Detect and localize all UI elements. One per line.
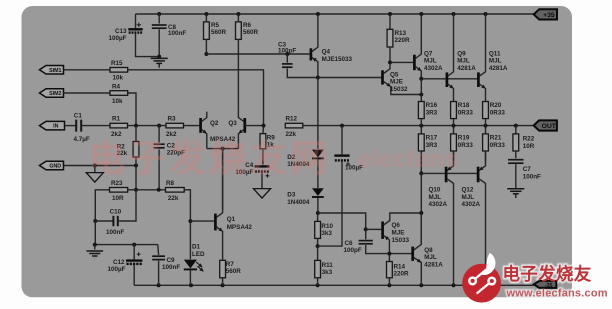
svg-text:www.elecfans.com: www.elecfans.com — [506, 287, 608, 299]
resistor R23 — [95, 180, 136, 221]
wire R23 node down to ground rail — [94, 221, 96, 245]
svg-text:4281A: 4281A — [457, 65, 476, 72]
svg-text:C13: C13 — [115, 28, 127, 35]
svg-text:Q5: Q5 — [390, 71, 399, 78]
svg-text:MJL: MJL — [457, 58, 470, 65]
transistor Q2 — [201, 112, 236, 149]
resistor R8 — [136, 180, 190, 221]
wire SIM1 to Q3 base node — [128, 70, 264, 126]
svg-text:C12: C12 — [113, 259, 125, 266]
svg-text:MJL: MJL — [429, 194, 442, 201]
transistor Q8 — [413, 213, 444, 285]
svg-text:22k: 22k — [168, 195, 179, 202]
svg-text:Q6: Q6 — [392, 222, 401, 229]
svg-text:0R33: 0R33 — [458, 142, 474, 149]
svg-text:3R3: 3R3 — [426, 109, 438, 116]
svg-text:电子发烧友: 电子发烧友 — [503, 264, 592, 284]
wire R3 to Q2 base — [184, 125, 200, 127]
svg-text:100pF: 100pF — [278, 48, 296, 55]
svg-text:100µF: 100µF — [108, 266, 126, 273]
svg-text:10R: 10R — [523, 143, 535, 150]
capacitor C10 — [93, 190, 136, 236]
wire D2 to D3 — [317, 159, 319, 188]
svg-text:MJL: MJL — [489, 58, 502, 65]
capacitor C1 — [65, 113, 111, 143]
svg-text:Q4: Q4 — [322, 48, 331, 55]
resistor R10 — [315, 213, 334, 246]
svg-text:R12: R12 — [286, 116, 298, 123]
svg-text:100pF: 100pF — [344, 247, 362, 254]
resistor R15 — [64, 60, 128, 81]
svg-text:R4: R4 — [112, 83, 121, 90]
diode D1 LED — [184, 221, 205, 285]
wire Q1 base — [188, 219, 214, 223]
svg-text:D3: D3 — [287, 192, 296, 199]
ground below C4 — [253, 189, 270, 199]
svg-text:C10: C10 — [110, 209, 122, 216]
svg-text:MJL: MJL — [424, 58, 437, 65]
ground below C8 — [151, 58, 168, 67]
svg-text:15033: 15033 — [392, 237, 410, 244]
resistor R21 — [483, 126, 506, 162]
wire GND rail — [64, 164, 139, 168]
svg-text:4302A: 4302A — [429, 201, 448, 208]
transistor Q5 — [383, 62, 422, 94]
svg-text:4281A: 4281A — [489, 65, 508, 72]
resistor R18 — [451, 102, 474, 126]
wire bootstrap node — [316, 244, 320, 248]
resistor R2 — [117, 126, 139, 166]
wire -35 bottom rail — [134, 283, 534, 287]
svg-text:1N4004: 1N4004 — [287, 199, 310, 206]
ground symbol bottom left — [87, 245, 104, 259]
wire left ground rail — [93, 243, 158, 247]
wire Q4 emitter chain down — [317, 78, 319, 150]
transistor Q6 — [383, 213, 422, 254]
ground symbol below GND tag wire — [86, 166, 103, 183]
svg-text:LED: LED — [192, 251, 205, 258]
resistor R16 — [418, 102, 437, 126]
svg-text:R18: R18 — [458, 102, 470, 109]
resistor R6 — [236, 14, 259, 112]
watermark url www.elecfans.com — [506, 287, 608, 299]
watermark title 电子发烧友 — [503, 264, 592, 284]
wire input node to R3 — [128, 124, 167, 128]
svg-text:4302A: 4302A — [462, 201, 481, 208]
svg-text:C1: C1 — [74, 113, 83, 120]
svg-text:R11: R11 — [322, 262, 334, 269]
elecfans logo — [462, 253, 501, 303]
svg-text:MJE: MJE — [392, 230, 405, 237]
svg-text:560R: 560R — [211, 29, 227, 36]
input tag IN — [40, 121, 65, 130]
wire R5 to Q4 base — [204, 52, 309, 56]
svg-text:R23: R23 — [111, 180, 123, 187]
wire GND node down to R23 node — [134, 166, 138, 192]
transistor Q11 — [478, 14, 508, 102]
capacitor C5 — [318, 126, 364, 247]
output tag OUT — [534, 120, 557, 130]
power tag -35 — [534, 281, 557, 289]
svg-text:100µF: 100µF — [109, 35, 127, 42]
wire bias node to Q6 base — [318, 213, 381, 231]
capacitor C3 — [278, 41, 318, 77]
transistor Q9 — [447, 14, 476, 102]
resistor R4 — [64, 83, 128, 104]
svg-text:R19: R19 — [458, 135, 470, 142]
svg-text:22k: 22k — [286, 131, 297, 138]
svg-text:C7: C7 — [523, 166, 532, 173]
svg-text:+35: +35 — [543, 12, 555, 19]
transistor Q7 — [414, 14, 443, 79]
svg-text:MJE: MJE — [390, 79, 403, 86]
svg-text:SIM2: SIM2 — [49, 91, 61, 97]
resistor R5 — [204, 14, 227, 54]
svg-text:Q9: Q9 — [457, 51, 466, 58]
wire +35 top rail — [136, 12, 534, 16]
wire lower base bus — [419, 171, 477, 175]
svg-text:R13: R13 — [395, 30, 407, 37]
svg-text:IN: IN — [53, 124, 58, 130]
wire D3 to bias node — [316, 198, 320, 215]
transistor Q4 — [311, 14, 353, 78]
svg-text:Q3: Q3 — [228, 120, 237, 127]
svg-text:Q7: Q7 — [424, 51, 433, 58]
svg-text:Q8: Q8 — [424, 247, 433, 254]
wire upper base bus — [419, 77, 477, 81]
capacitor C12 — [108, 245, 143, 286]
svg-text:10R: 10R — [112, 195, 124, 202]
svg-text:Q12: Q12 — [462, 186, 474, 193]
resistor R13 — [387, 14, 410, 62]
input tag SIM1 — [40, 66, 64, 75]
wire R13 to Q7 base — [388, 60, 413, 64]
svg-text:0R33: 0R33 — [490, 142, 506, 149]
capacitor C7 — [508, 160, 541, 189]
svg-text:R3: R3 — [168, 116, 177, 123]
svg-text:4302A: 4302A — [424, 65, 443, 72]
svg-text:2k2: 2k2 — [111, 131, 122, 138]
resistor R20 — [483, 102, 506, 126]
svg-text:elecfans: elecfans — [358, 146, 458, 173]
svg-text:SIM1: SIM1 — [49, 68, 61, 74]
resistor R22 — [513, 126, 535, 159]
svg-text:C6: C6 — [345, 240, 354, 247]
wire Q5 emitter node — [419, 79, 423, 102]
svg-text:15032: 15032 — [390, 86, 408, 93]
svg-text:R15: R15 — [111, 60, 123, 67]
svg-text:3k3: 3k3 — [322, 269, 333, 276]
svg-text:560R: 560R — [226, 268, 242, 275]
svg-text:R8: R8 — [166, 180, 175, 187]
resistor R14 — [387, 252, 410, 286]
svg-text:R7: R7 — [226, 261, 235, 268]
svg-text:R10: R10 — [321, 223, 333, 230]
svg-text:4281A: 4281A — [424, 261, 443, 268]
svg-text:Q11: Q11 — [489, 51, 501, 58]
watermark title glow — [503, 264, 608, 299]
svg-text:0R33: 0R33 — [490, 109, 506, 116]
resistor R3 — [166, 116, 184, 138]
transistor Q3 — [228, 112, 263, 149]
capacitor C9 — [152, 245, 180, 286]
diode D2 — [287, 150, 324, 169]
svg-text:3k3: 3k3 — [321, 230, 332, 237]
resistor R19 — [451, 126, 474, 162]
svg-text:R20: R20 — [490, 102, 502, 109]
input tag SIM2 — [40, 89, 64, 98]
svg-text:Q2: Q2 — [210, 120, 219, 127]
diode D3 — [287, 188, 324, 206]
svg-text:560R: 560R — [243, 29, 259, 36]
svg-text:2k2: 2k2 — [166, 131, 177, 138]
input tag GND — [40, 161, 64, 170]
svg-text:D1: D1 — [192, 244, 201, 251]
resistor R12 — [285, 116, 303, 138]
svg-text:Q10: Q10 — [429, 186, 441, 193]
capacitor C4 — [235, 162, 269, 189]
svg-text:OUT: OUT — [542, 123, 557, 130]
svg-text:220R: 220R — [395, 37, 411, 44]
svg-text:MJL: MJL — [462, 194, 475, 201]
svg-text:R1: R1 — [112, 116, 121, 123]
svg-text:R17: R17 — [426, 135, 438, 142]
wire Q2 Q3 emitters junction — [207, 147, 239, 210]
ground below C7 — [507, 189, 524, 198]
transistor Q12 — [462, 151, 486, 285]
svg-text:R21: R21 — [490, 135, 502, 142]
capacitor C6 — [344, 229, 412, 254]
capacitor C2 — [154, 126, 186, 190]
capacitor C8 — [152, 14, 187, 59]
resistor R1 — [110, 116, 128, 138]
svg-text:R22: R22 — [523, 136, 535, 143]
svg-text:MJL: MJL — [424, 254, 437, 261]
svg-text:100nF: 100nF — [162, 264, 180, 271]
svg-text:R14: R14 — [394, 263, 406, 270]
wire driver node vertical — [419, 173, 423, 244]
resistor R7 — [220, 260, 242, 285]
resistor R17 — [418, 126, 437, 174]
power tag +35 — [534, 9, 557, 19]
wire R4 to input node — [128, 93, 136, 126]
resistor R9 — [260, 124, 275, 165]
center watermark text — [88, 138, 458, 179]
svg-text:10k: 10k — [113, 75, 124, 82]
svg-text:MJE15033: MJE15033 — [322, 56, 353, 63]
svg-text:0R33: 0R33 — [458, 109, 474, 116]
svg-text:MPSA42: MPSA42 — [227, 224, 253, 231]
wire Q4 emitter node to Q5 base — [316, 76, 381, 80]
wire output rail — [303, 124, 534, 128]
transistor Q1 — [215, 149, 252, 261]
transistor Q10 — [429, 151, 454, 285]
svg-text:Q1: Q1 — [227, 216, 236, 223]
svg-text:220R: 220R — [394, 271, 410, 278]
svg-text:GND: GND — [49, 164, 61, 170]
svg-text:电子发烧友网: 电子发烧友网 — [88, 138, 331, 179]
svg-text:10k: 10k — [112, 98, 123, 105]
svg-text:100nF: 100nF — [168, 30, 186, 37]
svg-text:R16: R16 — [426, 102, 438, 109]
svg-text:100nF: 100nF — [106, 229, 124, 236]
capacitor C13 — [109, 14, 160, 57]
resistor R11 — [315, 246, 334, 285]
svg-text:100nF: 100nF — [523, 173, 541, 180]
